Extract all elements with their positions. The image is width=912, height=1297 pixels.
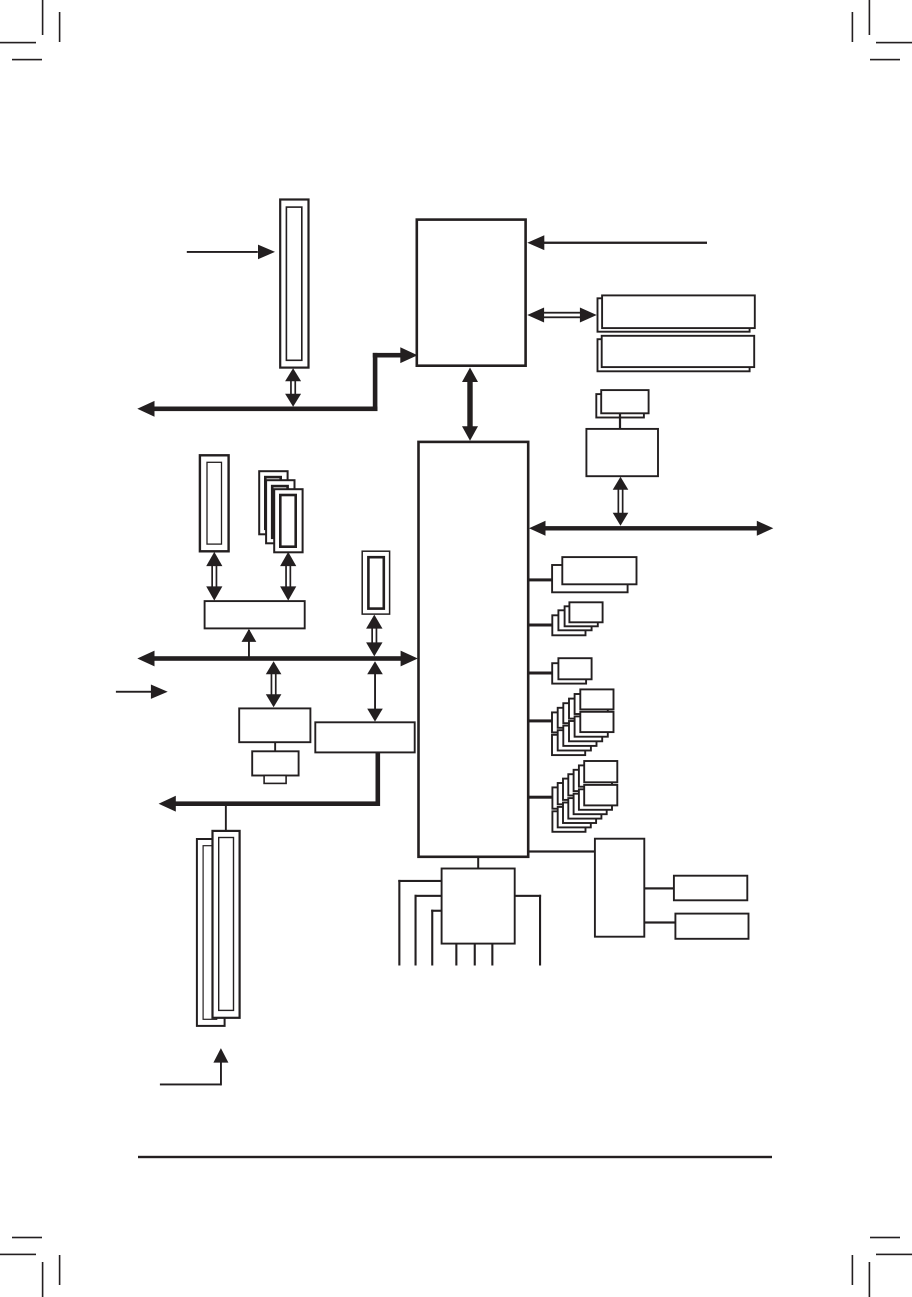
SuperIO wire bottom 2 [474,944,476,966]
bus to clockgen double arrow [266,661,282,707]
SuperIO wire right [515,895,541,966]
crop mark top-left [0,0,60,60]
SuperIO wire left 2 [415,895,442,966]
mini slot to bus double arrow [366,615,382,657]
wire chipset to pair3 [528,672,552,675]
PCIe x1 slot 1 [259,471,287,534]
bus to LAN double arrow [367,661,383,721]
SATA connectors stack [552,557,636,592]
wire chipset to SATA [528,578,552,581]
SuperIO wire bottom 1 [455,944,457,966]
CPU block [417,220,526,366]
PCIe x1 slots to bridge double arrow [280,552,296,601]
crop mark top-right [852,0,912,60]
wire chipset to USB stack B [528,796,552,799]
wire chipset to USB stack A [528,719,552,722]
DDR DIMM socket 1 [598,295,755,331]
chipset block [419,442,529,857]
connector pair stack [552,658,591,683]
DDR DIMM socket 2 [598,336,755,372]
SuperIO wire left 1 [398,880,441,966]
wire arrow up into slot (floppy) [160,1048,229,1085]
PCIe x16 slot [280,200,308,368]
crystal block [252,751,298,783]
Super I/O block [442,869,515,944]
wire arrow into CPU right (power) [527,235,707,250]
SuperIO wire bottom 3 [491,944,493,966]
audio codec block [595,839,644,937]
wire BIOS to controller [619,413,621,429]
IDE connector slot front [213,831,240,1018]
crop mark bottom-right [852,1237,912,1297]
wire chipset to SuperIO [477,857,479,869]
PCI slot [200,455,229,551]
PCI slot to bridge double arrow [206,552,222,601]
bridge block [205,601,305,628]
wire chipset to codec [528,850,595,852]
PCI bus double arrow (left) [137,651,418,667]
PCIe x1 slot 2 [266,480,294,543]
crop mark bottom-left [0,1237,60,1297]
wire arrow input (LPC) [116,685,168,699]
wire codec to jack 1 [644,887,674,889]
CPU-chipset FSB double arrow [462,368,478,441]
footer rule [138,1156,772,1158]
wire codec to jack 2 [644,921,675,923]
LAN thick wire to rear panel [159,752,381,811]
wire down to ATA slot [225,806,227,832]
wire arrow into PCIe x16 slot [187,245,275,260]
PCIe x1 slot 3 [274,489,302,552]
wire chipset to stack2 [528,624,552,627]
wire clockgen to crystal [274,742,276,751]
USB port stack A (6 pairs) [552,689,614,755]
BIOS controller block [586,429,658,476]
bus to bridge arrow [242,629,257,657]
audio jack block 1 [674,876,747,901]
USB port stack B (7 pairs) [552,761,617,832]
controller to IDE bus double arrow [613,477,629,526]
audio jack block 2 [675,914,748,939]
IDE connector slot back [197,839,225,1026]
mini slot [362,551,389,614]
IDE bus double arrow (right) [529,521,773,536]
SuperIO wire left 3 [431,910,441,966]
memory bus double arrow [527,308,596,323]
IDE/1394 stack of 4 [552,602,602,635]
PCIe x16 slot to bus double arrow [285,368,301,407]
PCI Express bus wire (left, to CPU) [137,347,417,416]
LAN controller block [315,722,414,752]
BIOS chip stack [596,390,648,417]
clock generator block [239,708,310,742]
